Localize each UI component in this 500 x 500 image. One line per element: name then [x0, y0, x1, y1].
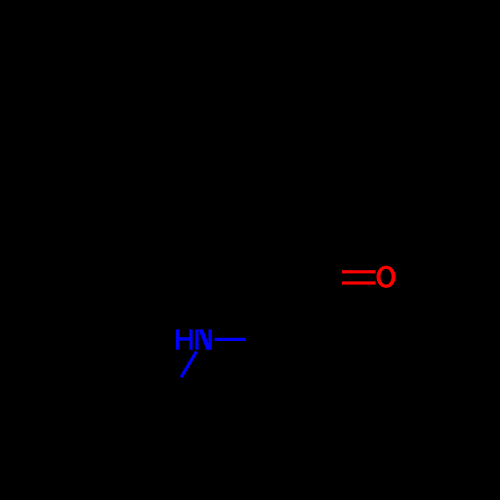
bond N-C2 blue half	[214, 338, 245, 341]
atom O label letter O inner counter	[381, 269, 392, 285]
bond C1-C2 (black)	[277, 277, 308, 339]
atom O label letter O outer ring	[377, 266, 396, 288]
bond C1-ring (black half)	[277, 215, 308, 277]
atom N label letter N right stem	[209, 329, 212, 349]
bond C2-N black half	[246, 338, 277, 341]
bond N-CH3 black half	[166, 377, 181, 403]
double bond C1=O black halves	[308, 270, 343, 273]
bond N-CH3 blue half	[181, 352, 196, 378]
atom N label letter N left stem	[195, 329, 198, 349]
double bond C1=O red half bottom line	[342, 281, 376, 284]
atom N-H label letter H crossbar	[176, 337, 193, 340]
atom N-H label letter H right stem	[189, 329, 192, 349]
atom N label letter N diagonal	[199, 329, 211, 349]
double bond C1=O red half top line	[342, 270, 376, 273]
atom N-H label letter H left stem	[176, 329, 179, 349]
benzene ring (black, invisible on black background)	[178, 91, 316, 215]
bond C2-CH3 (black)	[277, 340, 308, 402]
